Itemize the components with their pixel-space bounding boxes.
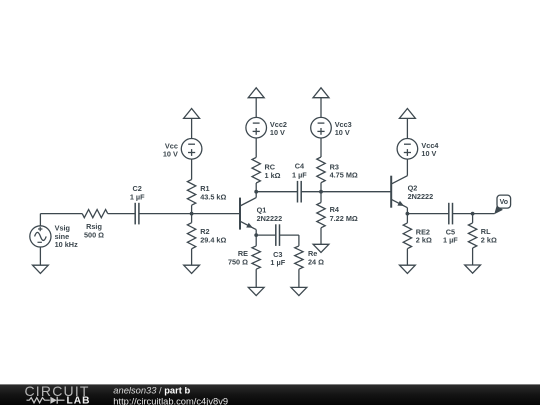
resistor Re xyxy=(295,246,303,269)
resistor R4 xyxy=(317,203,325,228)
ground below RE xyxy=(248,287,264,295)
wire Vcc4 to flag xyxy=(406,118,408,138)
node Q1 emitter junction xyxy=(254,233,258,237)
wire Vcc3 to R3 xyxy=(320,138,322,157)
transistor Q2 2N2222 xyxy=(391,176,407,208)
capacitor C5 xyxy=(449,203,453,225)
ground below RE2 xyxy=(400,265,416,273)
svg-text:10 V: 10 V xyxy=(163,149,178,158)
wire node to R4 xyxy=(320,192,322,203)
resistor RE2 xyxy=(403,223,411,249)
label Rsig value xyxy=(84,222,104,239)
svg-text:1 µF: 1 µF xyxy=(270,258,285,267)
label Vcc2 value xyxy=(270,120,287,137)
svg-text:LAB: LAB xyxy=(67,395,91,405)
svg-text:1 µF: 1 µF xyxy=(443,236,458,245)
resistor RE xyxy=(252,246,260,269)
CircuitLab logo resistor-diode motif xyxy=(27,397,65,404)
resistor R2 xyxy=(187,223,195,249)
wire node to R2 xyxy=(191,214,193,223)
label R4 value xyxy=(330,205,358,223)
svg-text:4.75 MΩ: 4.75 MΩ xyxy=(330,171,358,180)
footer bar xyxy=(0,384,540,405)
power flag above Vcc4 xyxy=(399,109,415,119)
label Vsig value xyxy=(55,224,78,249)
wire Vsig top to main rail xyxy=(40,214,82,226)
svg-text:2 kΩ: 2 kΩ xyxy=(416,236,432,245)
ground below R2 xyxy=(184,265,200,273)
wire Vsig bottom xyxy=(39,247,41,265)
wire Vcc flag to source xyxy=(191,118,193,138)
wire emitter row to C3 xyxy=(256,234,276,236)
label C3 value xyxy=(270,250,285,267)
node R1/R2/base junction xyxy=(190,212,194,216)
ground below RL xyxy=(465,265,481,273)
svg-text:10 V: 10 V xyxy=(335,128,350,137)
label Re value xyxy=(308,249,324,266)
svg-text:1 µF: 1 µF xyxy=(292,171,307,180)
svg-text:10 V: 10 V xyxy=(421,149,436,158)
transistor Q1 2N2222 xyxy=(240,198,256,230)
wire RE2 to ground xyxy=(406,249,408,266)
svg-text:2N2222: 2N2222 xyxy=(257,214,283,223)
resistor Rsig xyxy=(82,210,108,218)
voltage source Vcc3 xyxy=(311,117,332,138)
wire Re to ground xyxy=(298,269,300,287)
footer url text xyxy=(113,396,228,405)
svg-text:43.5 kΩ: 43.5 kΩ xyxy=(200,193,226,202)
wire RC to Vcc2 xyxy=(255,138,257,157)
resistor R1 xyxy=(187,180,195,206)
wire Q2 emitter to C5 xyxy=(407,213,448,215)
wire Q1 collector lead xyxy=(255,192,257,198)
svg-text:Vo: Vo xyxy=(500,199,508,206)
wire collector to RC xyxy=(255,183,257,192)
label C5 value xyxy=(443,228,458,245)
svg-text:750 Ω: 750 Ω xyxy=(228,257,248,266)
wire RL to node xyxy=(472,214,474,223)
label Q2 xyxy=(408,184,434,202)
label RE2 value xyxy=(416,227,432,244)
node R3/R4 junction xyxy=(319,190,323,194)
power flag above Vcc2 xyxy=(248,88,264,98)
voltage source Vsig (sine 10 kHz) xyxy=(30,226,51,247)
ground below R4 xyxy=(313,244,329,252)
node Q2 emitter junction xyxy=(406,212,410,216)
label C2 value xyxy=(130,184,145,201)
resistor RL xyxy=(468,223,476,248)
footer title text xyxy=(113,386,190,396)
capacitor C2 xyxy=(135,203,139,225)
resistor R3 xyxy=(317,157,325,183)
label RL value xyxy=(481,227,497,244)
svg-text:10 V: 10 V xyxy=(270,128,285,137)
svg-text:http://circuitlab.com/c4jv8v9: http://circuitlab.com/c4jv8v9 xyxy=(113,396,228,405)
wire Vcc to R1 xyxy=(191,159,193,179)
svg-text:2N2222: 2N2222 xyxy=(408,192,434,201)
svg-text:1 µF: 1 µF xyxy=(130,192,145,201)
ground below Re xyxy=(291,287,307,295)
svg-text:29.4 kΩ: 29.4 kΩ xyxy=(200,235,226,244)
label Q1 xyxy=(257,205,283,223)
power flag above Vcc3 xyxy=(313,88,329,98)
wire C2 to Q1 base xyxy=(139,213,240,215)
wire emitter to RE xyxy=(255,235,257,246)
wire R3 to node xyxy=(320,183,322,192)
label RC value xyxy=(265,163,281,180)
wire R2 to ground xyxy=(191,249,193,265)
wire R4 to ground xyxy=(320,228,322,245)
node flag Vo xyxy=(494,195,510,214)
node Q1 collector junction xyxy=(254,190,258,194)
voltage source Vcc4 xyxy=(397,139,418,160)
power flag Vcc xyxy=(184,109,200,119)
resistor RC xyxy=(252,157,260,183)
voltage source Vcc2 xyxy=(246,117,267,138)
svg-text:anelson33 / part b: anelson33 / part b xyxy=(113,386,190,396)
svg-text:10 kHz: 10 kHz xyxy=(55,240,78,249)
capacitor C3 xyxy=(276,224,280,246)
wire emitter to RE2 xyxy=(406,214,408,223)
wire C3 to Re xyxy=(280,235,299,246)
svg-text:2 kΩ: 2 kΩ xyxy=(481,236,497,245)
wire Vcc2 to flag xyxy=(255,98,257,118)
svg-text:500 Ω: 500 Ω xyxy=(84,230,104,239)
wire Q1 emitter lead xyxy=(255,230,257,236)
ground below Vsig xyxy=(33,265,49,273)
label Vcc3 value xyxy=(335,120,352,137)
capacitor C4 xyxy=(298,181,302,203)
wire RE to ground xyxy=(255,269,257,287)
label R1 value xyxy=(200,184,226,202)
wire C4 to Q2 base xyxy=(301,191,391,193)
label Vcc value xyxy=(163,141,178,158)
label RE value xyxy=(228,249,248,266)
label R3 value xyxy=(330,162,358,179)
label R2 value xyxy=(200,227,226,245)
wire collector row to C4 xyxy=(256,191,297,193)
node output junction xyxy=(471,212,475,216)
svg-text:1 kΩ: 1 kΩ xyxy=(265,171,281,180)
wire RL to ground xyxy=(472,248,474,265)
wire Q2 emitter lead xyxy=(406,208,408,214)
wire Q2 collector to Vcc4 xyxy=(406,159,408,176)
svg-text:Q1: Q1 xyxy=(257,205,267,214)
wire R1 to node xyxy=(191,205,193,213)
voltage source Vcc xyxy=(181,139,202,160)
svg-text:7.22 MΩ: 7.22 MΩ xyxy=(330,214,358,223)
wire flag to Vcc3 xyxy=(320,98,322,118)
svg-text:C4: C4 xyxy=(295,162,305,171)
CircuitLab logo wordmark xyxy=(25,383,91,405)
wire Rsig to C2 xyxy=(108,213,136,215)
svg-text:24 Ω: 24 Ω xyxy=(308,257,324,266)
wire C5 to Vo xyxy=(453,213,495,215)
label C4 value xyxy=(292,162,307,180)
label Vcc4 value xyxy=(421,141,439,158)
